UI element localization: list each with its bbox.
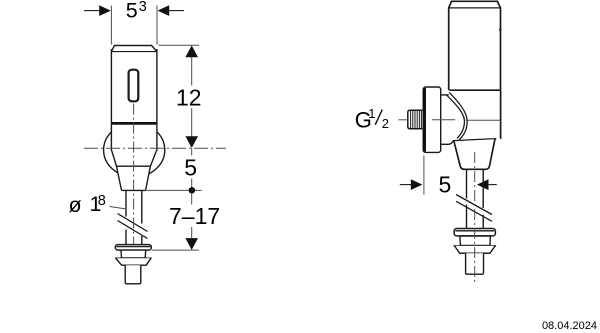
horizontal centerline: [84, 147, 226, 149]
cone below ball: [111, 148, 156, 191]
extension line from flange back: [423, 156, 425, 195]
svg-text:12: 12: [176, 84, 202, 110]
rubber seal cone right figure: [454, 246, 497, 253]
label ø 1^8 with leader: [69, 192, 127, 217]
arrow down to washer line: [185, 238, 198, 250]
outlet nozzle right figure: [466, 253, 484, 274]
nut (middle block): [121, 250, 146, 258]
body (side): [449, 1, 501, 90]
svg-text:5: 5: [184, 155, 197, 181]
svg-text:8: 8: [98, 193, 106, 209]
svg-text:7–17: 7–17: [169, 203, 220, 229]
break symbol right figure: [456, 195, 492, 215]
reference line at cone foot: [147, 189, 202, 191]
step from flange to cone: [442, 141, 453, 144]
svg-text:ø: ø: [69, 193, 82, 217]
svg-text:08.04.2024: 08.04.2024: [542, 320, 597, 332]
dimension column: 12 / 5 / 7-17: [147, 45, 221, 250]
flush pipe (tube) with break: [126, 190, 142, 244]
dimension 5^3 (top width): [84, 0, 184, 45]
svg-text:3: 3: [139, 0, 147, 15]
body (sensor housing): [111, 46, 156, 151]
housing right edge below body: [500, 90, 502, 139]
arrow down to centerline: [185, 136, 198, 148]
threaded inlet nipple G1/2: [408, 110, 423, 129]
G1/2 label: [355, 106, 389, 133]
dimension line segments: [191, 56, 193, 240]
svg-text:1: 1: [368, 106, 375, 121]
elbow curves (valve dome): [447, 92, 467, 139]
dimension 5 (right figure): [400, 156, 497, 198]
inlet centerline / G1/2 leader: [398, 119, 501, 122]
vertical centerline right figure: [474, 152, 476, 283]
top reference line: [159, 44, 200, 46]
washer right figure: [454, 229, 495, 236]
wall flange disc (thick back edge): [423, 87, 441, 152]
ball (spherical housing): [104, 123, 165, 177]
thick band at body bottom: [111, 122, 156, 125]
outlet tube (side) with break: [467, 169, 484, 228]
dot at cone-foot reference: [189, 187, 196, 194]
svg-text:5: 5: [439, 172, 452, 198]
arrow up to top line: [185, 45, 198, 57]
nut right figure: [460, 236, 491, 245]
outlet nozzle: [125, 265, 141, 284]
vertical centerline: [133, 104, 135, 245]
reference line at washer bottom: [152, 249, 199, 251]
svg-text:2: 2: [382, 116, 389, 131]
sensor window slot: [129, 70, 139, 102]
svg-text:5: 5: [126, 0, 138, 23]
rubber seal cone: [115, 258, 152, 265]
cone (outlet taper, side view): [453, 139, 496, 169]
ledge between flange and body: [442, 94, 449, 96]
break symbol (two slashes): [118, 214, 148, 232]
washer (top flange): [115, 245, 151, 251]
